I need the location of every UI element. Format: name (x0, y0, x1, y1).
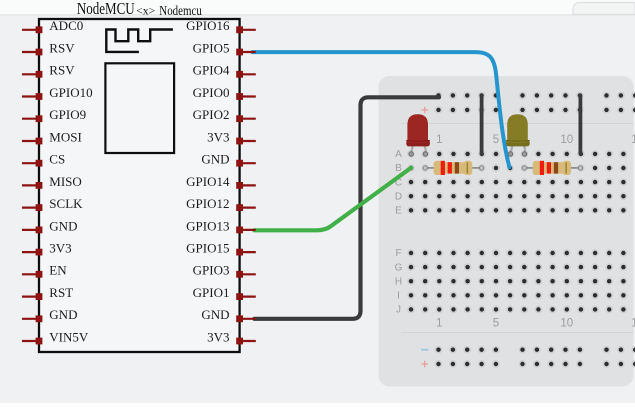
resistor R2 body (tan, dumbbell) (533, 161, 571, 175)
resistor R1 band 2 (red) (448, 162, 452, 173)
svg-text:GPIO5: GPIO5 (193, 40, 230, 55)
resistor R1 lead end pads (423, 166, 484, 170)
svg-text:GPIO9: GPIO9 (49, 107, 86, 122)
LED D1 (red) flange (406, 140, 430, 147)
wire: black GND jumper from NodeMCU GND (right pin 14) to top power rail (254, 97, 439, 318)
top rail plus marker (421, 107, 428, 114)
svg-text:CS: CS (49, 152, 65, 167)
svg-text:GPIO1: GPIO1 (193, 285, 230, 300)
NodeMCU right pins (lines and pads) (240, 30, 256, 341)
LED D1 (red) body dome (407, 114, 428, 143)
svg-text:GPIO13: GPIO13 (186, 218, 229, 233)
wire: black jumper on breadboard from top rail to A12 (column under resistor R2 right lead) (579, 95, 583, 153)
resistor R2 band 3 (brown) (554, 162, 558, 173)
resistor R1 leads (425, 167, 481, 169)
wire: blue jumper from NodeMCU GPIO5 to breadboard B8 (253, 52, 510, 167)
svg-text:GPIO3: GPIO3 (193, 263, 230, 278)
wire: green jumper from NodeMCU GPIO13 to breadboard B(-1) (254, 168, 411, 231)
resistor R1 body (tan, dumbbell) (434, 161, 473, 175)
svg-text:GPIO10: GPIO10 (49, 85, 92, 100)
svg-text:GPIO4: GPIO4 (193, 63, 230, 78)
svg-text:EN: EN (49, 263, 67, 278)
svg-text:E: E (395, 206, 402, 217)
svg-text:GND: GND (201, 152, 229, 167)
resistor R2 band 2 (red) (547, 162, 551, 173)
LED D2 (olive/yellow) body dome (507, 114, 528, 143)
svg-text:ADC0: ADC0 (49, 18, 83, 33)
NodeMCU title (77, 0, 202, 19)
breadboard column number labels (436, 134, 635, 329)
resistor R1 band 1 (red) (441, 161, 445, 175)
svg-text:1: 1 (436, 134, 442, 146)
svg-text:H: H (395, 276, 402, 287)
svg-text:NodeMCU: NodeMCU (77, 0, 135, 18)
NodeMCU left pin labels (49, 18, 92, 344)
LED D1 (red) leg end pads (409, 152, 428, 156)
wire: black jumper on breadboard from top rail to A5 (column under resistor R1 right lead) (480, 95, 484, 153)
svg-text:15: 15 (631, 134, 635, 146)
resistor R2 band 4 (gold, thin) (565, 162, 567, 173)
breadboard row labels A-J (395, 149, 403, 316)
resistor R2 leads (524, 167, 580, 169)
svg-text:GPIO14: GPIO14 (186, 174, 230, 189)
svg-text:1: 1 (436, 317, 442, 329)
svg-text:GND: GND (49, 307, 77, 322)
bottom power-rail holes (435, 346, 635, 368)
LED D2 (olive/yellow) flange seam (506, 139, 530, 142)
svg-text:RSV: RSV (49, 40, 75, 55)
svg-text:A: A (395, 149, 402, 160)
bottom rail plus marker (421, 361, 428, 368)
svg-text:10: 10 (560, 134, 573, 146)
resistor R1 band 3 (brown) (455, 162, 459, 173)
breadboard body (379, 76, 634, 387)
svg-text:D: D (395, 191, 402, 202)
svg-text:GPIO12: GPIO12 (186, 196, 229, 211)
svg-text:10: 10 (560, 317, 573, 329)
svg-text:RST: RST (49, 285, 73, 300)
resistor R1 band 4 (gold, thin) (467, 162, 469, 173)
svg-text:MISO: MISO (49, 174, 82, 189)
LED D2 (olive/yellow) flange (506, 140, 530, 147)
NodeMCU right pin labels (186, 18, 230, 344)
LED D2 (olive/yellow) legs (511, 143, 526, 153)
svg-text:3V3: 3V3 (49, 241, 71, 256)
NodeMCU ESP module rectangle (105, 63, 174, 153)
terminal strip holes rows F-J (407, 249, 627, 313)
top power-rail holes (435, 92, 635, 114)
terminal strip holes rows A-E (407, 150, 627, 214)
resistor R2 band 1 (red) (540, 161, 544, 175)
svg-text:RSV: RSV (49, 63, 75, 78)
NodeMCU left pins (lines and pads) (22, 30, 39, 341)
svg-text:GND: GND (49, 218, 77, 233)
svg-text:<x>: <x> (136, 3, 155, 17)
LED D1 (red) legs (411, 143, 426, 153)
svg-text:F: F (395, 248, 401, 259)
LED D2 (olive/yellow) leg end pads (508, 152, 527, 156)
svg-text:3V3: 3V3 (207, 129, 229, 144)
svg-text:SCLK: SCLK (49, 196, 83, 211)
svg-text:VIN5V: VIN5V (49, 329, 89, 344)
NodeMCU antenna symbol (106, 30, 173, 52)
svg-text:Nodemcu: Nodemcu (159, 4, 202, 19)
svg-text:GPIO2: GPIO2 (193, 107, 230, 122)
svg-text:GPIO16: GPIO16 (186, 18, 230, 33)
breadboard separator line below top power rails (401, 123, 634, 125)
svg-text:J: J (396, 305, 401, 316)
svg-text:I: I (397, 291, 400, 302)
svg-text:MOSI: MOSI (49, 129, 82, 144)
svg-text:GPIO0: GPIO0 (193, 85, 230, 100)
NodeMCU chip body (39, 19, 240, 352)
breadboard separator line above bottom power rails (401, 332, 634, 334)
svg-text:G: G (395, 262, 403, 273)
resistor R2 lead end pads (522, 166, 583, 170)
svg-text:GPIO15: GPIO15 (186, 241, 229, 256)
bottom rail minus marker (421, 349, 428, 351)
svg-text:5: 5 (493, 134, 499, 146)
LED D1 (red) flange seam (406, 139, 430, 142)
svg-text:5: 5 (493, 317, 499, 329)
svg-text:GND: GND (201, 307, 229, 322)
svg-text:3V3: 3V3 (207, 329, 229, 344)
svg-text:15: 15 (631, 317, 635, 329)
